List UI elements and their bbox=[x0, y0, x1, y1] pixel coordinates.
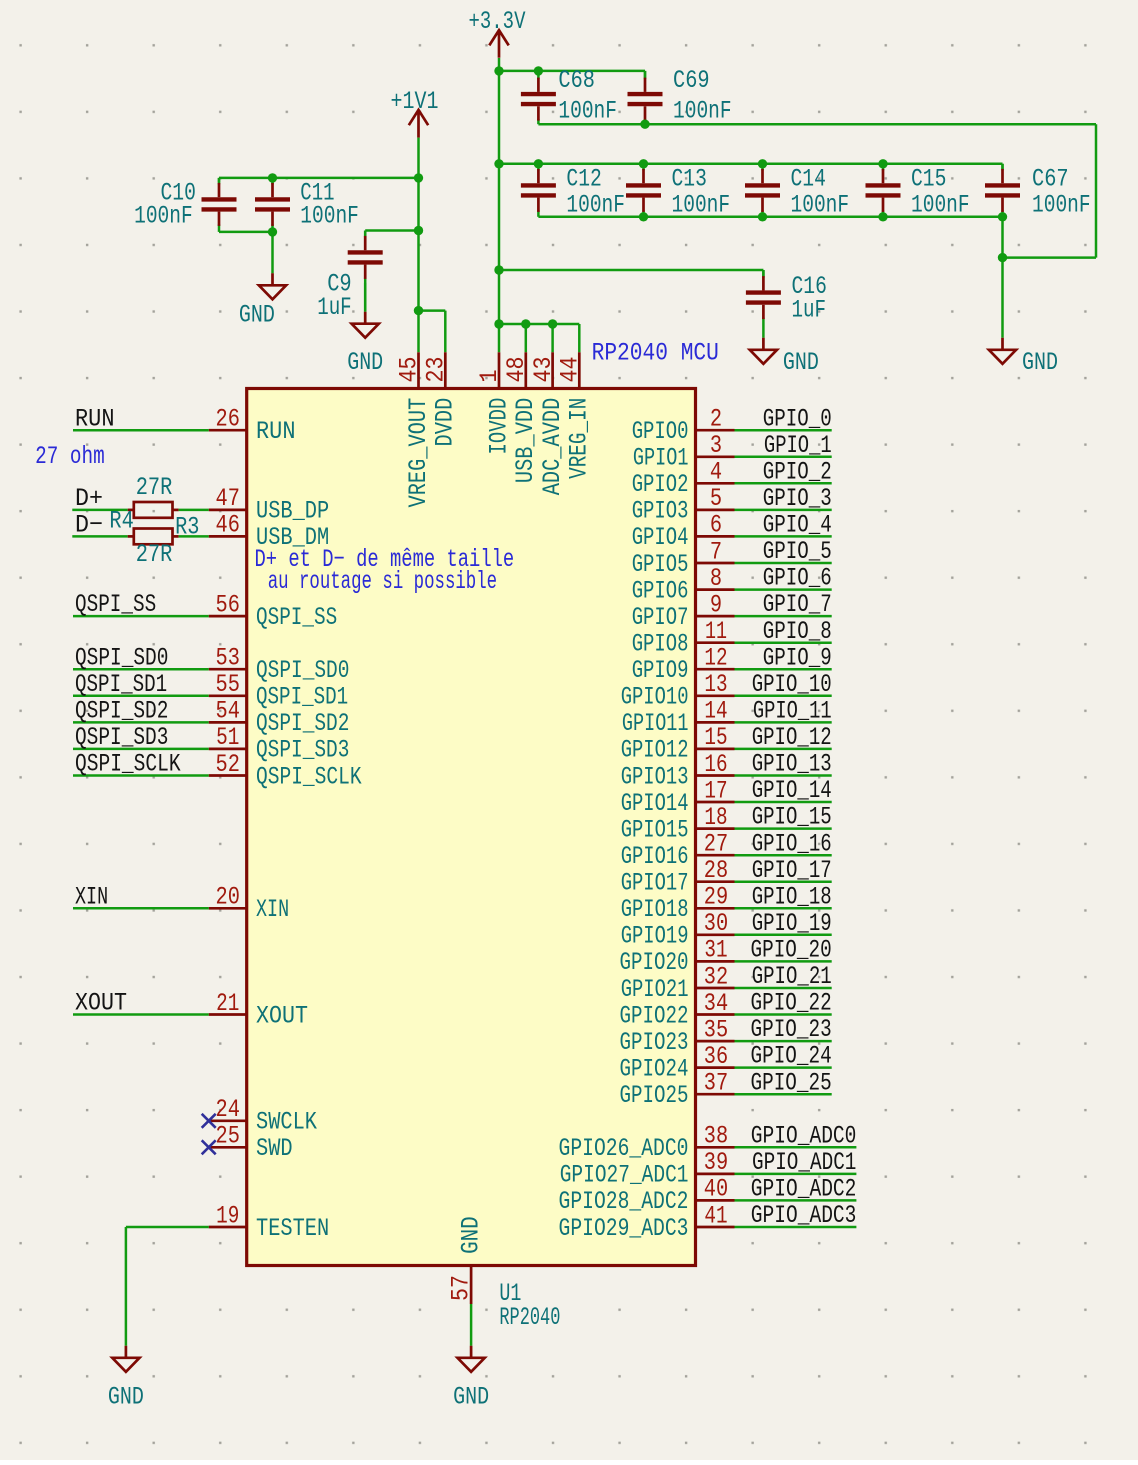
svg-text:12: 12 bbox=[704, 644, 727, 673]
svg-text:GPIO26_ADC0: GPIO26_ADC0 bbox=[559, 1134, 689, 1163]
wire net QSPI_SS bbox=[73, 615, 209, 618]
junction C67 gnd node bbox=[998, 253, 1007, 262]
svg-text:54: 54 bbox=[216, 697, 240, 726]
svg-text:GPIO19: GPIO19 bbox=[621, 922, 689, 951]
wire +3.3V rail bbox=[498, 58, 501, 352]
pin 44 stub bbox=[578, 352, 581, 388]
pin 46 stub USB_DM bbox=[209, 535, 247, 538]
junction 1V1 C10 rail bbox=[414, 173, 423, 182]
pin 5 stub GPIO3 bbox=[696, 509, 735, 512]
svg-text:QSPI_SD1: QSPI_SD1 bbox=[75, 670, 167, 699]
svg-text:38: 38 bbox=[704, 1122, 728, 1151]
pin 37 stub GPIO25 bbox=[696, 1093, 735, 1096]
wire net GPIO_15 bbox=[735, 827, 832, 830]
wire net GPIO_12 bbox=[735, 748, 832, 751]
svg-text:GND: GND bbox=[347, 348, 383, 377]
wire C10 top bbox=[218, 178, 221, 183]
svg-text:XOUT: XOUT bbox=[256, 1001, 308, 1030]
pin 48 stub bbox=[524, 352, 527, 388]
wire net GPIO_8 bbox=[735, 641, 832, 644]
pin 57 stub bbox=[470, 1266, 473, 1305]
pin 43 stub bbox=[551, 352, 554, 388]
svg-text:GPIO_1: GPIO_1 bbox=[764, 431, 832, 460]
wire net GPIO_2 bbox=[735, 482, 832, 485]
svg-text:GPIO_12: GPIO_12 bbox=[752, 723, 832, 752]
svg-text:XIN: XIN bbox=[256, 895, 289, 924]
svg-text:25: 25 bbox=[216, 1122, 240, 1151]
wire TESTEN down bbox=[125, 1227, 128, 1346]
wire net GPIO_3 bbox=[735, 509, 832, 512]
wire net GPIO_ADC1 bbox=[735, 1173, 857, 1176]
svg-text:55: 55 bbox=[216, 670, 240, 699]
pin 38 stub GPIO26_ADC0 bbox=[696, 1146, 735, 1149]
svg-text:27R: 27R bbox=[136, 473, 173, 502]
svg-text:GPIO_17: GPIO_17 bbox=[752, 856, 832, 885]
svg-text:SWCLK: SWCLK bbox=[256, 1108, 317, 1137]
svg-text:QSPI_SCLK: QSPI_SCLK bbox=[256, 762, 362, 791]
wire 1V1 to C9 bbox=[365, 229, 418, 232]
svg-text:11: 11 bbox=[705, 617, 727, 646]
svg-text:GPIO_22: GPIO_22 bbox=[751, 989, 832, 1018]
svg-text:GPIO_25: GPIO_25 bbox=[751, 1068, 832, 1097]
svg-text:30: 30 bbox=[704, 909, 728, 938]
svg-text:4: 4 bbox=[710, 458, 722, 487]
svg-text:46: 46 bbox=[216, 511, 240, 540]
svg-text:27 ohm: 27 ohm bbox=[35, 442, 105, 471]
svg-text:53: 53 bbox=[216, 644, 240, 673]
svg-text:QSPI_SD3: QSPI_SD3 bbox=[75, 723, 168, 752]
capacitor C69 bbox=[628, 71, 663, 124]
ground C67 bbox=[989, 338, 1016, 364]
pin 2 stub GPIO0 bbox=[696, 429, 735, 432]
svg-text:16: 16 bbox=[704, 750, 727, 779]
wire C10 C11 bottom bbox=[219, 231, 273, 234]
pin 18 stub GPIO15 bbox=[696, 827, 735, 830]
svg-text:19: 19 bbox=[216, 1201, 239, 1230]
wire net GPIO_7 bbox=[735, 615, 832, 618]
svg-text:GPIO14: GPIO14 bbox=[621, 789, 689, 818]
junction C68 top bbox=[534, 66, 543, 75]
wire D+ bbox=[72, 509, 127, 512]
svg-text:VREG_VOUT: VREG_VOUT bbox=[404, 398, 433, 508]
svg-text:GPIO_ADC2: GPIO_ADC2 bbox=[751, 1175, 857, 1204]
svg-text:RUN: RUN bbox=[75, 404, 115, 433]
pin 13 stub GPIO10 bbox=[696, 694, 735, 697]
pin 32 stub GPIO21 bbox=[696, 987, 735, 990]
wire C9 top bbox=[364, 231, 367, 237]
capacitor C68 bbox=[521, 71, 556, 124]
svg-text:100nF: 100nF bbox=[134, 202, 193, 231]
wire to pin 23 bbox=[444, 311, 447, 353]
svg-text:51: 51 bbox=[216, 723, 239, 752]
svg-text:GPIO2: GPIO2 bbox=[632, 470, 689, 499]
wire 3V3 to C16 bbox=[499, 269, 763, 272]
wire net GPIO_ADC0 bbox=[735, 1146, 857, 1149]
wire net XIN bbox=[73, 907, 209, 910]
wire C68 C69 bottom rail bbox=[538, 123, 1096, 126]
wire C11 to ground bbox=[271, 232, 274, 273]
wire C12-C67 bottom rail bbox=[538, 216, 1002, 219]
junction C67 bottom bbox=[998, 212, 1007, 221]
pin 47 stub USB_DP bbox=[209, 509, 247, 512]
svg-text:C12: C12 bbox=[566, 165, 601, 194]
svg-text:GPIO12: GPIO12 bbox=[621, 736, 689, 765]
svg-text:GPIO_0: GPIO_0 bbox=[763, 404, 832, 433]
wire net GPIO_11 bbox=[735, 721, 832, 724]
wire net GPIO_24 bbox=[735, 1066, 832, 1069]
svg-text:GPIO27_ADC1: GPIO27_ADC1 bbox=[560, 1161, 689, 1190]
wire C69 top bbox=[644, 71, 647, 78]
pin 21 stub XOUT bbox=[209, 1013, 247, 1016]
svg-text:GPIO_2: GPIO_2 bbox=[763, 457, 832, 486]
wire net GPIO_25 bbox=[735, 1093, 832, 1096]
svg-text:29: 29 bbox=[704, 883, 728, 912]
wire net GPIO_21 bbox=[735, 987, 832, 990]
svg-text:40: 40 bbox=[704, 1175, 728, 1204]
svg-text:27: 27 bbox=[704, 830, 728, 859]
junction C13 bottom bbox=[639, 212, 648, 221]
svg-text:GPIO_24: GPIO_24 bbox=[751, 1042, 832, 1071]
svg-text:GPIO_8: GPIO_8 bbox=[763, 617, 832, 646]
svg-text:32: 32 bbox=[704, 962, 728, 991]
svg-text:GPIO5: GPIO5 bbox=[632, 550, 689, 579]
wire to C67 gnd node bbox=[1003, 256, 1097, 259]
wire 3V3 to C68 C69 bbox=[499, 70, 645, 73]
svg-text:14: 14 bbox=[704, 697, 727, 726]
pin 17 stub GPIO14 bbox=[696, 801, 735, 804]
svg-text:GPIO_10: GPIO_10 bbox=[752, 670, 832, 699]
svg-text:1: 1 bbox=[475, 370, 504, 383]
junction pin48 bbox=[521, 319, 530, 328]
wire to pin 44 bbox=[578, 324, 581, 352]
svg-text:21: 21 bbox=[216, 989, 239, 1018]
svg-text:39: 39 bbox=[704, 1148, 728, 1177]
pin 29 stub GPIO18 bbox=[696, 907, 735, 910]
svg-text:QSPI_SCLK: QSPI_SCLK bbox=[75, 750, 181, 779]
wire net GPIO_10 bbox=[735, 695, 832, 698]
svg-text:52: 52 bbox=[216, 750, 240, 779]
capacitor C16 bbox=[746, 270, 781, 338]
wire net GPIO_6 bbox=[735, 588, 832, 591]
svg-text:GND: GND bbox=[453, 1382, 489, 1411]
svg-text:GPIO_15: GPIO_15 bbox=[752, 803, 832, 832]
pin 4 stub GPIO2 bbox=[696, 482, 735, 485]
pin 20 stub XIN bbox=[209, 907, 247, 910]
svg-text:24: 24 bbox=[216, 1095, 240, 1124]
junction pin23 branch bbox=[414, 306, 423, 315]
svg-text:QSPI_SD0: QSPI_SD0 bbox=[256, 656, 349, 685]
ground TESTEN bbox=[112, 1346, 139, 1372]
wire net GPIO_22 bbox=[735, 1013, 832, 1016]
svg-text:C68: C68 bbox=[558, 66, 595, 95]
svg-text:GPIO3: GPIO3 bbox=[632, 497, 689, 526]
svg-text:ADC_AVDD: ADC_AVDD bbox=[538, 398, 567, 496]
pin 19 stub TESTEN bbox=[209, 1226, 247, 1229]
wire C9 to ground bbox=[364, 283, 367, 312]
ground C9 bbox=[352, 312, 379, 338]
svg-text:20: 20 bbox=[216, 883, 240, 912]
svg-text:GPIO1: GPIO1 bbox=[633, 444, 689, 473]
svg-text:GPIO4: GPIO4 bbox=[632, 523, 689, 552]
svg-text:GPIO_18: GPIO_18 bbox=[752, 882, 832, 911]
svg-text:GND: GND bbox=[457, 1216, 486, 1254]
junction pin1 branch bbox=[494, 319, 503, 328]
svg-text:1uF: 1uF bbox=[317, 293, 352, 322]
svg-text:GPIO17: GPIO17 bbox=[621, 869, 689, 898]
wire net QSPI_SD2 bbox=[73, 721, 209, 724]
pin 31 stub GPIO20 bbox=[696, 960, 735, 963]
pin 41 stub GPIO29_ADC3 bbox=[696, 1226, 735, 1229]
svg-text:C15: C15 bbox=[911, 165, 946, 194]
capacitor C10 bbox=[202, 178, 237, 232]
wire net GPIO_16 bbox=[735, 854, 832, 857]
svg-text:100nF: 100nF bbox=[672, 191, 731, 220]
junction C16 branch bbox=[494, 265, 503, 274]
svg-text:GPIO_11: GPIO_11 bbox=[753, 697, 832, 726]
junction C14 top bbox=[758, 159, 767, 168]
svg-text:3: 3 bbox=[710, 431, 722, 460]
svg-text:R4: R4 bbox=[109, 507, 133, 536]
pin 34 stub GPIO22 bbox=[696, 1013, 735, 1016]
svg-text:GPIO18: GPIO18 bbox=[621, 895, 689, 924]
pin 45 stub bbox=[417, 352, 420, 388]
svg-text:48: 48 bbox=[502, 357, 531, 383]
no-connect SWD bbox=[202, 1140, 216, 1154]
svg-text:2: 2 bbox=[710, 405, 722, 434]
wire 3V3 rail to C12-C15 C67 bbox=[499, 163, 1003, 166]
svg-text:100nF: 100nF bbox=[558, 97, 617, 126]
pin 24 stub SWCLK bbox=[209, 1119, 247, 1122]
svg-text:8: 8 bbox=[710, 564, 722, 593]
svg-text:36: 36 bbox=[704, 1042, 728, 1071]
svg-text:47: 47 bbox=[216, 484, 240, 513]
svg-text:GPIO_5: GPIO_5 bbox=[763, 537, 832, 566]
svg-text:1uF: 1uF bbox=[792, 296, 827, 325]
svg-text:GPIO21: GPIO21 bbox=[621, 975, 689, 1004]
pin 15 stub GPIO12 bbox=[696, 748, 735, 751]
wire 1V1 branch pin 23 bbox=[419, 309, 446, 312]
junction 3V3 top bbox=[494, 66, 503, 75]
ground C16 bbox=[750, 338, 777, 364]
resistor R4 bbox=[128, 502, 179, 518]
svg-text:56: 56 bbox=[216, 590, 240, 619]
pin 28 stub GPIO17 bbox=[696, 880, 735, 883]
pin 14 stub GPIO11 bbox=[696, 721, 735, 724]
capacitor C12 bbox=[521, 164, 556, 217]
svg-text:USB_VDD: USB_VDD bbox=[511, 398, 540, 483]
svg-text:GPIO11: GPIO11 bbox=[622, 709, 689, 738]
wire C67 to ground bbox=[1001, 217, 1004, 338]
svg-text:13: 13 bbox=[704, 670, 727, 699]
svg-text:27R: 27R bbox=[136, 540, 173, 569]
svg-text:D+: D+ bbox=[75, 484, 103, 513]
svg-text:35: 35 bbox=[704, 1015, 728, 1044]
junction C12 top bbox=[534, 159, 543, 168]
svg-text:+1V1: +1V1 bbox=[391, 87, 439, 116]
pin 12 stub GPIO9 bbox=[696, 668, 735, 671]
wire to pin 43 bbox=[551, 324, 554, 352]
svg-text:43: 43 bbox=[529, 357, 558, 383]
svg-text:RUN: RUN bbox=[256, 417, 296, 446]
wire +1V1 rail bbox=[417, 138, 420, 353]
pin 53 stub QSPI_SD0 bbox=[209, 668, 247, 671]
svg-text:GND: GND bbox=[1022, 348, 1058, 377]
svg-text:QSPI_SD0: QSPI_SD0 bbox=[75, 643, 168, 672]
svg-text:41: 41 bbox=[704, 1201, 727, 1230]
svg-text:15: 15 bbox=[704, 723, 727, 752]
wire net QSPI_SD1 bbox=[73, 695, 209, 698]
svg-text:GPIO25: GPIO25 bbox=[620, 1081, 689, 1110]
svg-text:45: 45 bbox=[395, 357, 424, 383]
svg-text:GPIO10: GPIO10 bbox=[621, 683, 689, 712]
svg-text:QSPI_SD2: QSPI_SD2 bbox=[256, 709, 349, 738]
wire R3 to pin 46 bbox=[179, 535, 209, 538]
capacitor C14 bbox=[745, 164, 780, 217]
svg-text:C14: C14 bbox=[791, 165, 826, 194]
power symbol +3.3V bbox=[489, 30, 508, 58]
svg-text:GND: GND bbox=[783, 348, 819, 377]
wire R4 to pin 47 bbox=[179, 509, 209, 512]
wire net GPIO_4 bbox=[735, 535, 832, 538]
svg-text:GPIO29_ADC3: GPIO29_ADC3 bbox=[559, 1214, 689, 1243]
wire net GPIO_9 bbox=[735, 668, 832, 671]
svg-text:5: 5 bbox=[710, 484, 722, 513]
svg-text:GPIO_16: GPIO_16 bbox=[752, 829, 832, 858]
junction C11 top bbox=[268, 173, 277, 182]
wire net RUN bbox=[73, 429, 209, 432]
capacitor C9 bbox=[348, 231, 383, 312]
svg-text:GPIO_20: GPIO_20 bbox=[751, 936, 832, 965]
svg-text:9: 9 bbox=[710, 590, 722, 619]
svg-text:100nF: 100nF bbox=[300, 202, 359, 231]
ground pin 57 bbox=[458, 1346, 485, 1372]
svg-text:GPIO_3: GPIO_3 bbox=[763, 484, 832, 513]
pin 39 stub GPIO27_ADC1 bbox=[696, 1173, 735, 1176]
capacitor C13 bbox=[626, 164, 661, 217]
svg-text:26: 26 bbox=[216, 405, 240, 434]
pin 25 stub SWD bbox=[209, 1146, 247, 1149]
pin 40 stub GPIO28_ADC2 bbox=[696, 1199, 735, 1202]
junction C14 bottom bbox=[758, 212, 767, 221]
svg-text:31: 31 bbox=[704, 936, 727, 965]
pin 52 stub QSPI_SCLK bbox=[209, 774, 247, 777]
svg-text:GPIO23: GPIO23 bbox=[620, 1028, 689, 1057]
power symbol +1V1 bbox=[409, 110, 428, 138]
svg-text:GPIO28_ADC2: GPIO28_ADC2 bbox=[559, 1187, 689, 1216]
pin 3 stub GPIO1 bbox=[696, 455, 735, 458]
svg-text:GPIO_ADC0: GPIO_ADC0 bbox=[751, 1121, 857, 1150]
wire net GPIO_20 bbox=[735, 960, 832, 963]
svg-text:RP2040: RP2040 bbox=[499, 1303, 560, 1332]
svg-text:100nF: 100nF bbox=[911, 191, 970, 220]
junction C69 bottom bbox=[640, 120, 649, 129]
pin 55 stub QSPI_SD1 bbox=[209, 694, 247, 697]
svg-text:6: 6 bbox=[710, 511, 722, 540]
svg-text:23: 23 bbox=[422, 357, 451, 383]
pin 8 stub GPIO6 bbox=[696, 588, 735, 591]
svg-text:GPIO_6: GPIO_6 bbox=[763, 564, 832, 593]
junction C13 top bbox=[639, 159, 648, 168]
svg-text:RP2040 MCU: RP2040 MCU bbox=[592, 339, 719, 368]
svg-text:TESTEN: TESTEN bbox=[256, 1214, 329, 1243]
svg-text:44: 44 bbox=[556, 357, 585, 383]
svg-text:GPIO_ADC3: GPIO_ADC3 bbox=[751, 1201, 857, 1230]
wire C10 C11 top rail bbox=[219, 177, 419, 180]
svg-text:GPIO22: GPIO22 bbox=[620, 1001, 689, 1030]
wire net GPIO_23 bbox=[735, 1040, 832, 1043]
svg-text:GPIO_7: GPIO_7 bbox=[763, 590, 832, 619]
svg-text:GPIO13: GPIO13 bbox=[621, 762, 689, 791]
wire net GPIO_ADC3 bbox=[735, 1226, 857, 1229]
svg-text:C67: C67 bbox=[1032, 165, 1069, 194]
wire 3V3 branch pins 48 43 44 bbox=[499, 323, 579, 326]
svg-text:GPIO7: GPIO7 bbox=[632, 603, 689, 632]
svg-text:GPIO_21: GPIO_21 bbox=[752, 962, 832, 991]
pin 7 stub GPIO5 bbox=[696, 562, 735, 565]
svg-text:QSPI_SD3: QSPI_SD3 bbox=[256, 736, 349, 765]
pin 36 stub GPIO24 bbox=[696, 1066, 735, 1069]
ground C10 C11 bbox=[259, 273, 286, 299]
no-connect SWCLK bbox=[202, 1114, 216, 1128]
svg-text:GPIO_13: GPIO_13 bbox=[752, 750, 832, 779]
svg-text:USB_DP: USB_DP bbox=[256, 497, 329, 526]
svg-text:37: 37 bbox=[704, 1069, 728, 1098]
wire net XOUT bbox=[73, 1013, 209, 1016]
resistor R3 bbox=[128, 529, 179, 545]
svg-text:GPIO0: GPIO0 bbox=[632, 417, 689, 446]
wire C67 top bbox=[1001, 164, 1004, 169]
wire C16 top bbox=[762, 270, 765, 276]
wire net GPIO_18 bbox=[735, 907, 832, 910]
svg-text:GPIO_9: GPIO_9 bbox=[763, 643, 832, 672]
svg-text:D−: D− bbox=[75, 511, 103, 540]
svg-text:GPIO16: GPIO16 bbox=[621, 842, 689, 871]
pin 35 stub GPIO23 bbox=[696, 1040, 735, 1043]
svg-text:GPIO20: GPIO20 bbox=[620, 948, 689, 977]
svg-text:C13: C13 bbox=[672, 165, 707, 194]
svg-text:28: 28 bbox=[704, 856, 728, 885]
svg-text:18: 18 bbox=[704, 803, 727, 832]
svg-text:au routage si possible: au routage si possible bbox=[268, 567, 497, 596]
svg-text:GPIO_23: GPIO_23 bbox=[751, 1015, 832, 1044]
svg-text:34: 34 bbox=[704, 989, 728, 1018]
svg-text:100nF: 100nF bbox=[566, 191, 625, 220]
svg-text:GPIO_19: GPIO_19 bbox=[752, 909, 832, 938]
svg-text:57: 57 bbox=[447, 1275, 476, 1301]
svg-text:QSPI_SD2: QSPI_SD2 bbox=[75, 697, 168, 726]
junction rail2 bbox=[494, 159, 503, 168]
wire net QSPI_SCLK bbox=[73, 774, 209, 777]
junction C9 wire bbox=[414, 226, 423, 235]
wire net GPIO_ADC2 bbox=[735, 1199, 857, 1202]
svg-text:GPIO24: GPIO24 bbox=[620, 1054, 689, 1083]
pin 27 stub GPIO16 bbox=[696, 854, 735, 857]
wire net QSPI_SD0 bbox=[73, 668, 209, 671]
capacitor C67 bbox=[985, 164, 1020, 217]
pin 6 stub GPIO4 bbox=[696, 535, 735, 538]
pin 54 stub QSPI_SD2 bbox=[209, 721, 247, 724]
pin 26 stub RUN bbox=[209, 429, 247, 432]
pin 16 stub GPIO13 bbox=[696, 774, 735, 777]
wire net GPIO_17 bbox=[735, 880, 832, 883]
svg-text:XOUT: XOUT bbox=[75, 989, 127, 1018]
svg-text:7: 7 bbox=[710, 537, 722, 566]
svg-text:GPIO8: GPIO8 bbox=[632, 630, 689, 659]
svg-text:100nF: 100nF bbox=[673, 97, 732, 126]
pin 1 stub bbox=[498, 352, 501, 388]
wire net GPIO_1 bbox=[735, 456, 832, 459]
wire net GPIO_13 bbox=[735, 774, 832, 777]
